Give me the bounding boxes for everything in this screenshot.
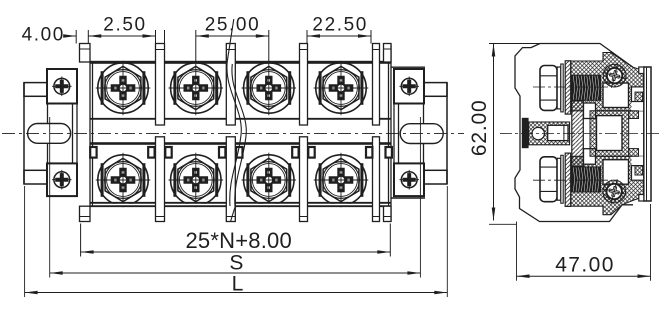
hinge clip 3 (165, 147, 171, 158)
terminal screw top row 1 (96, 61, 151, 116)
upper rail-side white cutout (632, 87, 645, 111)
hinge clip 5 (236, 147, 242, 158)
lower rail-side white cutout (632, 156, 645, 180)
terminal screw top row 4 (314, 61, 369, 116)
terminal screw top row 3 (241, 61, 296, 116)
left DIN-rail foot outline (23, 83, 25, 184)
terminal screw top row 2 (169, 61, 224, 116)
right bracket slot (oval hole) (400, 124, 443, 144)
lower screw end view (603, 180, 626, 203)
lower screw thread (572, 166, 602, 192)
break line curve 1 (227, 19, 241, 206)
lower washer plate (565, 153, 571, 206)
barrier wall 3 upper tab (300, 44, 308, 126)
left bracket slot (oval hole) (28, 124, 71, 144)
wire clamp hatched block (529, 122, 570, 145)
barrier wall 1 lower part (156, 137, 165, 222)
right bracket bottom screw (399, 170, 419, 190)
DIN rail cross-section (644, 67, 651, 201)
DIN rail lower lip (639, 195, 644, 202)
right bracket top screw (399, 77, 419, 97)
hinge clip 2 (148, 147, 154, 158)
hinge clip 7 (308, 147, 314, 158)
left chamber box lower (584, 149, 596, 165)
right bracket column lines (423, 104, 425, 164)
barrier wall 2 lower part (226, 137, 235, 222)
hinge clip 4 (219, 147, 225, 158)
terminal body bottom edges (93, 204, 388, 206)
central vertical plate (diagonal hatch) (572, 101, 584, 167)
right end tab upper (384, 44, 392, 63)
left bracket column lines (47, 104, 49, 164)
left end tab lower (80, 206, 91, 221)
extension lines above first barrier tab (75, 30, 77, 44)
barrier wall 1 upper tab (156, 44, 165, 126)
wire clamp screw circle (532, 127, 544, 139)
left end tab upper (80, 44, 91, 63)
central chamber white box (597, 116, 623, 151)
hinge clip 6 (292, 147, 298, 158)
barrier wall 4 lower part (373, 137, 380, 222)
left bracket top screw (52, 77, 72, 97)
horizontal centerline of top view (2, 133, 464, 135)
upper hex bolt (540, 66, 557, 111)
frame right hook upper (629, 111, 639, 119)
right bracket outline edges (392, 66, 426, 68)
terminal screw bottom row 3 (241, 153, 296, 208)
moulded housing cross-hatch upper blob (571, 53, 644, 111)
svg-text:22.50: 22.50 (312, 15, 368, 36)
terminal screw bottom row 4 (314, 153, 369, 208)
svg-text:S: S (229, 252, 243, 275)
side view body outline top (540, 44, 633, 68)
DIN rail upper lip (639, 67, 644, 74)
upper half bottom line (90, 118, 391, 120)
svg-text:47.00: 47.00 (555, 254, 615, 277)
svg-text:62.00: 62.00 (468, 100, 491, 157)
left bracket top screw square (47, 69, 77, 104)
right bracket bottom screw square (394, 163, 424, 196)
terminal body top edge (90, 61, 391, 64)
side view lower bolt centerline (533, 179, 612, 181)
right bracket top screw square (394, 69, 424, 104)
svg-text:4.00: 4.00 (22, 25, 65, 46)
lower chamber white cutout (603, 160, 629, 185)
hinge clip 8 (366, 147, 372, 158)
left bracket bottom screw (52, 170, 72, 190)
lower clamp finger (635, 166, 643, 175)
svg-text:25*N+8.00: 25*N+8.00 (186, 228, 292, 253)
wire clamp white box (548, 125, 568, 140)
terminal body right edge (388, 62, 390, 207)
right DIN-rail foot outline (446, 83, 448, 184)
left chamber box upper (584, 103, 596, 119)
upper screw end view (603, 64, 626, 87)
break line curve 2 (231, 64, 247, 222)
svg-text:2.50: 2.50 (103, 15, 146, 36)
upper screw thread (572, 75, 602, 101)
barrier wall 3 lower part (300, 137, 308, 222)
terminal screw bottom row 2 (169, 153, 224, 208)
barrier wall 4 upper tab (373, 44, 380, 126)
hinge clip 1 (90, 147, 96, 158)
central chamber cross-hatch frame (590, 111, 629, 157)
side view body outline left (515, 44, 633, 222)
terminal screw bottom row 1 (96, 153, 151, 208)
wire clamp black plate (522, 118, 529, 148)
barrier wall 2 upper tab (226, 44, 235, 126)
lower hex bolt (540, 157, 557, 202)
upper chamber white cutout (603, 83, 629, 108)
side view upper bolt centerline (533, 86, 612, 88)
lower half top edge (90, 142, 391, 145)
moulded housing cross-hatch lower blob (571, 156, 644, 214)
upper clamp finger (635, 92, 643, 101)
hinge clip 9 (386, 147, 392, 158)
left bracket bottom screw square (47, 163, 77, 196)
right end tab lower (384, 206, 392, 221)
terminal body left edge (89, 62, 91, 207)
frame right hook lower (629, 149, 639, 157)
side view main centerline (500, 133, 661, 135)
upper washer plate (565, 61, 571, 114)
